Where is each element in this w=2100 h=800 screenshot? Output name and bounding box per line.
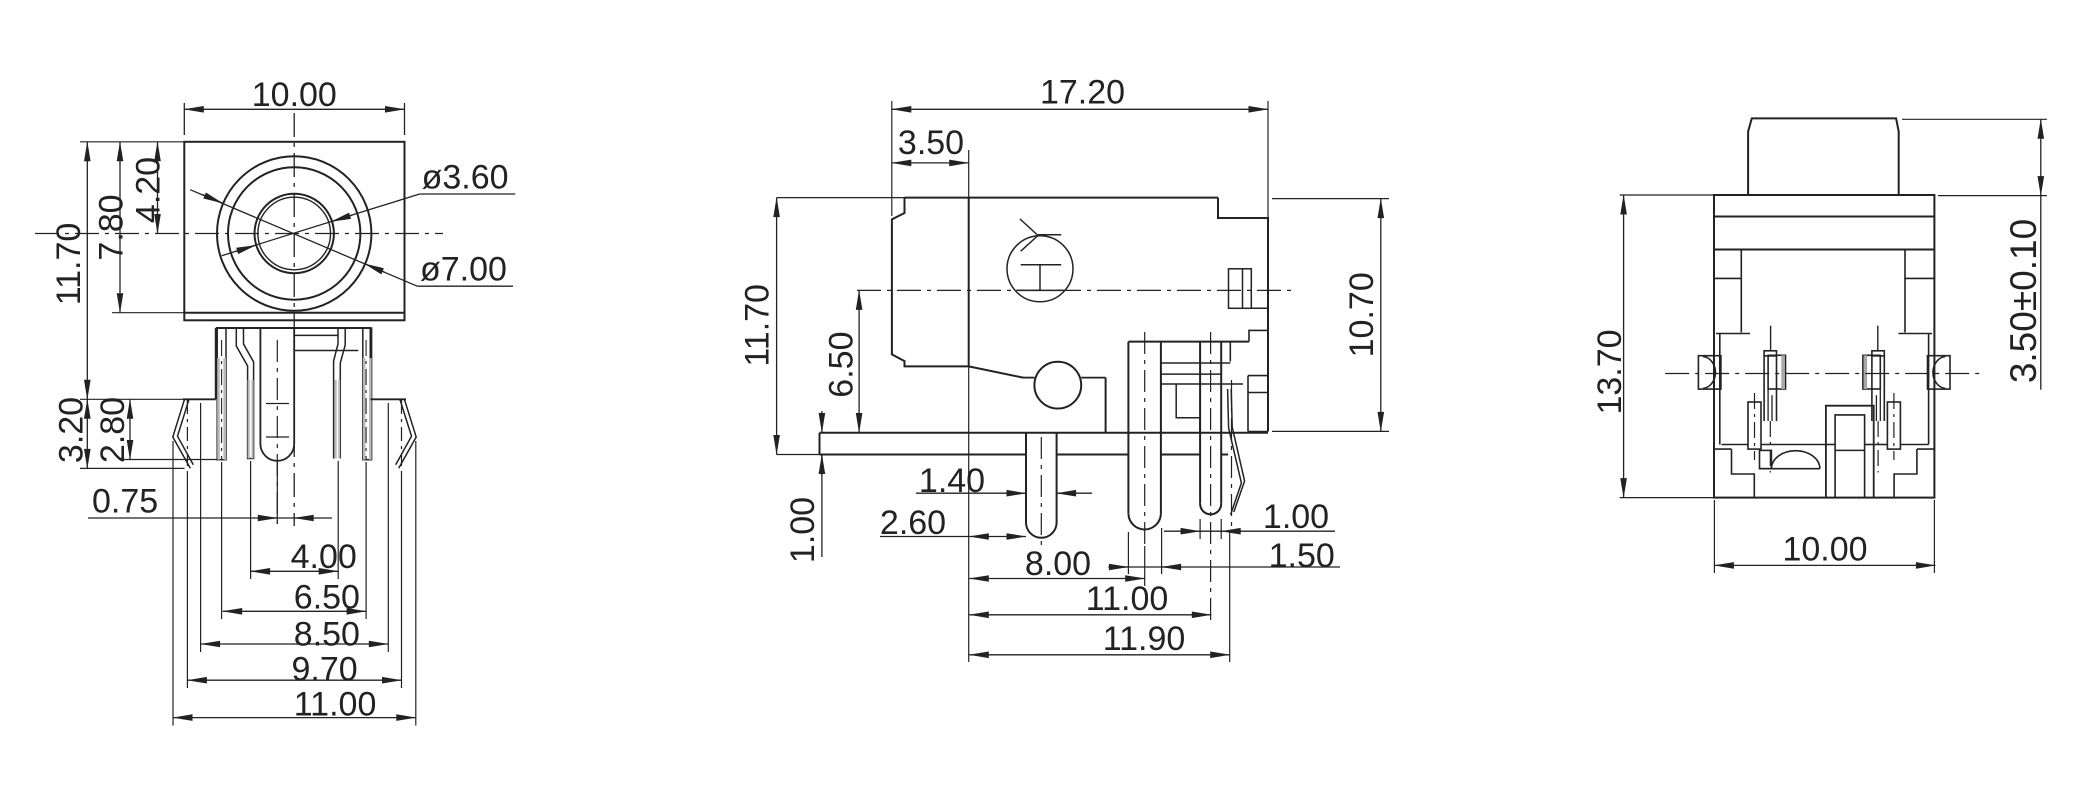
svg-text:11.00: 11.00 [1086, 580, 1169, 618]
center box inner [1835, 415, 1865, 498]
barrel circle d7.00 [217, 156, 371, 310]
pin tower top [1128, 341, 1249, 343]
dimension 0.75 [88, 517, 332, 519]
small component on axis right [1229, 269, 1269, 309]
dimension 13.70 [1623, 195, 1625, 498]
svg-text:17.20: 17.20 [1040, 74, 1125, 112]
rear pin side (1.00) [1200, 332, 1221, 622]
body top edge [905, 197, 1219, 199]
upper contact pin right [1863, 326, 1884, 473]
right latch clip [371, 399, 417, 468]
svg-text:9.70: 9.70 [292, 651, 358, 689]
right side steps [1230, 330, 1268, 431]
svg-text:4.20: 4.20 [130, 157, 168, 223]
dimension 1.00 left (plate) [821, 411, 823, 557]
svg-text:10.00: 10.00 [1782, 531, 1867, 569]
dimension 11.70 left [86, 142, 88, 400]
dimension 11.00 middle [969, 614, 1211, 616]
barrel front face [892, 198, 969, 367]
chin diagonal [969, 366, 1023, 377]
lower front edge [1023, 377, 1106, 379]
shelf lines [1714, 445, 1934, 450]
svg-text:8.00: 8.00 [1025, 545, 1091, 583]
svg-text:7.80: 7.80 [93, 194, 131, 260]
dimension 6.50 [223, 610, 366, 612]
big pin side (1.50) [1128, 332, 1161, 546]
svg-text:11.00: 11.00 [294, 686, 377, 724]
svg-text:11.90: 11.90 [1103, 620, 1186, 658]
svg-text:11.70: 11.70 [50, 223, 88, 306]
right view texts [1591, 219, 2044, 569]
dimension 10.00 top [184, 103, 404, 135]
svg-text:6.50: 6.50 [294, 578, 360, 616]
inner walls [1714, 250, 1934, 445]
bottom right staircase [1894, 449, 1917, 498]
inner top line 1 [1714, 216, 1934, 218]
extension lines middle [777, 101, 1389, 662]
step lines right of sleeve [294, 335, 358, 350]
knob on top [1748, 118, 1899, 194]
pin 2 (left jogged pin) [236, 328, 253, 459]
dimension 11.90 [969, 654, 1229, 656]
leader d3.60 [222, 194, 516, 256]
dimension 4.20 [157, 142, 159, 234]
dimension 4.00 [251, 570, 339, 572]
svg-text:4.00: 4.00 [291, 538, 357, 576]
dimension 11.70 middle [776, 198, 778, 455]
svg-text:6.50: 6.50 [823, 332, 861, 398]
extension lines right view [1620, 119, 2047, 573]
svg-text:3.50: 3.50 [898, 124, 964, 162]
hole circle d3.60 [255, 194, 334, 273]
lower pin right [1887, 393, 1900, 460]
dimension 1.40 [916, 492, 1092, 494]
schematic contact symbol [1007, 219, 1073, 302]
front pin (1.40) [1026, 433, 1057, 546]
svg-text:1.00: 1.00 [784, 497, 822, 563]
svg-text:ø3.60: ø3.60 [422, 158, 509, 196]
svg-text:0.75: 0.75 [92, 483, 158, 521]
dimension 10.00 rear [1714, 564, 1935, 566]
svg-text:11.70: 11.70 [739, 284, 777, 367]
vertical centerline [293, 113, 295, 526]
dimension 2.80 [129, 399, 131, 459]
svg-text:ø7.00: ø7.00 [420, 250, 507, 288]
dimension 3.50 +-0.10 [2040, 119, 2042, 390]
horizontal extension lines left side [80, 142, 218, 469]
tower internal lines [1161, 363, 1243, 433]
latch clip side [1228, 380, 1245, 530]
pin 4 (right flat pin, hatched) [363, 328, 372, 460]
center box inner bar [1835, 449, 1865, 451]
svg-text:2.80: 2.80 [94, 397, 132, 463]
dimension 3.20 [86, 399, 88, 468]
dimension 1.50 [1108, 566, 1340, 568]
dimension 7.80 [119, 142, 121, 313]
barrel inner circle d6.0 [228, 167, 360, 299]
base plate [820, 433, 1269, 455]
top right notch [1218, 198, 1268, 432]
extension lines below pins [173, 400, 416, 726]
svg-text:1.40: 1.40 [919, 462, 985, 500]
dimension 6.50 middle [858, 290, 860, 432]
dimension 2.60 [880, 536, 1026, 538]
svg-text:2.60: 2.60 [880, 504, 946, 542]
pin block top line [216, 327, 371, 329]
pin block left wall [215, 328, 217, 399]
bottom dome [1760, 450, 1820, 468]
dimension 3.50 [892, 162, 969, 164]
barrel back edge [968, 198, 970, 367]
left view texts [50, 76, 509, 724]
dimension 8.50 [201, 643, 389, 645]
dimension 10.70 [1380, 199, 1382, 432]
sleeve center pin [260, 329, 294, 525]
pin 3 (right jogged pin) [334, 328, 346, 459]
dimension 17.20 [892, 108, 1268, 110]
hole chamfer circle [258, 197, 331, 270]
dimension 8.00 [969, 578, 1144, 580]
svg-text:1.00: 1.00 [1263, 498, 1329, 536]
small circle feature [1034, 362, 1081, 409]
body rect rear [1714, 195, 1934, 498]
bottom left staircase [1732, 449, 1755, 498]
svg-text:1.50: 1.50 [1269, 537, 1335, 575]
right side bump [1928, 356, 1951, 389]
main axis centerline [857, 289, 1292, 291]
inner top line 2 [1714, 249, 1934, 251]
svg-text:13.70: 13.70 [1591, 329, 1629, 414]
left latch clip [173, 399, 216, 468]
body outline front [184, 142, 404, 320]
dimension 11.00 [173, 717, 416, 719]
svg-text:10.70: 10.70 [1343, 272, 1381, 357]
dimension 1.00 right (pin) [1164, 530, 1335, 532]
svg-text:3.50±0.10: 3.50±0.10 [2003, 219, 2044, 383]
front lower wall [1105, 378, 1107, 433]
pin block right wall [370, 328, 372, 399]
left side bump [1698, 356, 1721, 389]
lower pin left [1748, 393, 1761, 460]
leader d7.00 [190, 190, 513, 287]
svg-text:3.20: 3.20 [53, 397, 91, 463]
upper contact pin left [1764, 326, 1785, 473]
horizontal centerline [35, 233, 443, 235]
rear axis centerline [1665, 373, 1984, 375]
svg-text:8.50: 8.50 [294, 616, 360, 654]
center box outer [1826, 406, 1874, 498]
svg-text:10.00: 10.00 [252, 76, 337, 114]
middle view texts [739, 74, 1381, 658]
dimension 9.70 [187, 679, 401, 681]
pin 1 (left flat pin, hatched) [217, 328, 226, 460]
